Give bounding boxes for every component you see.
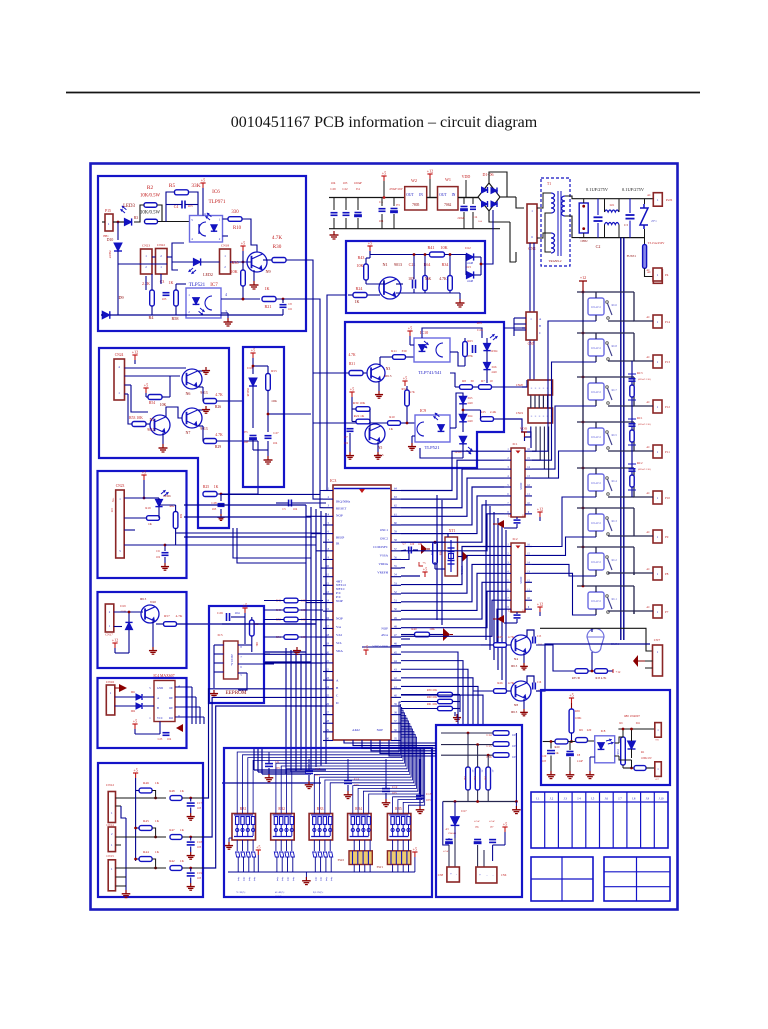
- box C reference section: [243, 347, 284, 487]
- svg-text:10K: 10K: [440, 245, 447, 250]
- transistor N1 9013: [379, 277, 401, 299]
- power +5 above R36: [242, 246, 244, 251]
- wires osc to crystal: [401, 533, 448, 535]
- svg-text:VREFH: VREFH: [377, 571, 388, 575]
- svg-text:R9: R9: [579, 728, 583, 732]
- svg-text:R27: R27: [497, 635, 503, 639]
- svg-text:10K: 10K: [255, 642, 258, 647]
- svg-text:+5: +5: [133, 719, 137, 724]
- ground arrow osc caps: [421, 544, 427, 554]
- power +5 box K: [504, 827, 506, 832]
- svg-text:CN24: CN24: [115, 353, 124, 357]
- capacitor C5 104 small: [288, 500, 290, 507]
- svg-text:RL1: RL1: [612, 597, 618, 601]
- svg-text:4148: 4148: [467, 279, 474, 283]
- connector P12: [653, 400, 662, 413]
- svg-text:CN17: CN17: [105, 633, 113, 637]
- svg-text:1K: 1K: [180, 789, 185, 793]
- opto-coupler IC8 PC817: [595, 736, 615, 763]
- wires of relay RL6: [577, 291, 634, 293]
- svg-text:R1: R1: [641, 750, 645, 754]
- connector CN19 header: [528, 408, 553, 423]
- resistor R34 4.7K vertical: [448, 276, 453, 291]
- contact of relay RL3: [606, 517, 609, 520]
- svg-text:RC2: RC2: [637, 461, 643, 465]
- svg-text:RJLAP-6: RJLAP-6: [591, 522, 602, 525]
- power +5 box C: [252, 353, 254, 358]
- ground arrow AVss: [443, 628, 450, 641]
- svg-text:10K: 10K: [473, 776, 476, 781]
- svg-text:C14: C14: [486, 733, 492, 737]
- wires CN16 to IC4: [115, 696, 136, 698]
- svg-text:W2: W2: [411, 178, 417, 183]
- svg-text:RL7: RL7: [612, 388, 618, 392]
- connector P4: [653, 268, 662, 281]
- resistor R57 4.7K: [164, 622, 177, 627]
- svg-text:IC2: IC2: [512, 537, 517, 541]
- ground left of RB1: [229, 837, 232, 839]
- ground right of N7: [198, 409, 205, 411]
- svg-text:4.7K: 4.7K: [409, 391, 415, 394]
- svg-text:C14: C14: [473, 216, 478, 219]
- svg-text:R35 30: R35 30: [572, 677, 581, 680]
- svg-text:VDDA: VDDA: [378, 562, 388, 566]
- box G interface section: [98, 678, 187, 748]
- svg-text:10K: 10K: [463, 776, 466, 781]
- bus MCU right lower to box K: [401, 652, 458, 725]
- feeders bundle to MCU pins: [306, 515, 323, 517]
- svg-text:LED4: LED4: [491, 350, 498, 353]
- svg-text:=: =: [531, 386, 533, 390]
- svg-text:P9: P9: [665, 535, 669, 539]
- wires R5/C4 feedback loop: [166, 192, 175, 222]
- wire R36 bottom to IC7: [242, 286, 244, 299]
- resistor R66 104 vertical: [433, 542, 438, 564]
- resistor R54 10K: [148, 395, 162, 400]
- svg-text:-: -: [493, 873, 494, 877]
- power +12 box F: [114, 643, 116, 648]
- transistor N7: [182, 408, 202, 428]
- svg-text:C24: C24: [477, 328, 483, 332]
- svg-text:103: 103: [197, 877, 202, 880]
- power +12 IC1: [539, 512, 541, 517]
- svg-text:T3.15A/250V: T3.15A/250V: [648, 241, 666, 245]
- svg-text:IC3: IC3: [330, 478, 336, 483]
- resistor R64 56K vertical: [423, 276, 428, 291]
- svg-text:104: 104: [331, 181, 336, 185]
- svg-text:N6: N6: [186, 391, 191, 396]
- svg-text:1K: 1K: [169, 280, 174, 285]
- svg-text:CN12: CN12: [106, 783, 114, 787]
- capacitor C11 103: [347, 774, 349, 780]
- svg-text:AKI2: AKI2: [352, 728, 360, 732]
- svg-text:103: 103: [426, 798, 431, 802]
- svg-text:10K: 10K: [271, 399, 277, 403]
- long routing verticals right of MCU: [436, 495, 438, 620]
- svg-text:CN18: CN18: [221, 244, 229, 248]
- transistor N5 9013: [365, 424, 385, 444]
- svg-text:1K: 1K: [180, 859, 185, 863]
- svg-text:24C01A-: 24C01A-: [230, 654, 234, 666]
- svg-text:OUT: OUT: [406, 193, 414, 197]
- capacitor C3 103: [163, 292, 170, 294]
- relay coil feed wires from IC1 IC2: [532, 321, 596, 451]
- svg-text:163: 163: [212, 507, 217, 511]
- svg-text:R53 10K: R53 10K: [129, 416, 143, 420]
- svg-text:N8: N8: [514, 703, 518, 707]
- svg-text:+5: +5: [408, 326, 412, 331]
- svg-text:104: 104: [234, 611, 239, 615]
- svg-text:1K: 1K: [180, 828, 185, 832]
- wires MCU bottom to box K: [344, 740, 436, 743]
- svg-text:VCC: VCC: [157, 716, 163, 720]
- svg-text:(033uF+120): (033uF+120): [638, 468, 651, 471]
- wires to CN4: [516, 197, 524, 208]
- bottom rail filter: [579, 237, 645, 239]
- transistor N6: [182, 369, 202, 389]
- svg-text:AVss: AVss: [381, 633, 389, 637]
- resistor R66 680 vertical: [621, 737, 626, 765]
- svg-text:-: -: [456, 872, 457, 876]
- power +5 above IC6: [202, 183, 204, 188]
- transistor N2 9013: [150, 415, 170, 435]
- resistor R53 10K: [132, 422, 146, 427]
- power +5 box G: [134, 724, 136, 729]
- relay RL5 RJLAP-6: [588, 428, 604, 445]
- wires box E exit: [165, 544, 186, 546]
- ground in box R: [459, 293, 461, 299]
- svg-text:+12: +12: [537, 602, 544, 607]
- LED4: [483, 343, 490, 350]
- diode D17 1N4148: [451, 817, 460, 826]
- wires box R internal: [396, 283, 403, 285]
- svg-text:R29: R29: [215, 445, 221, 449]
- svg-text:J.7: J.7: [618, 797, 622, 801]
- wire box C mid to right: [268, 413, 284, 415]
- svg-text:P7: P7: [665, 610, 669, 614]
- svg-text:10: 10: [489, 379, 493, 383]
- connector CN5: [526, 312, 537, 340]
- capacitor C19 103: [187, 872, 195, 874]
- resistor R43 10K vertical: [364, 264, 369, 280]
- resistor R40 10K at AVss: [401, 638, 410, 640]
- wires R8 R7 chain: [455, 386, 460, 388]
- svg-text:D14: D14: [468, 415, 473, 418]
- red arrow right of crystal: [462, 551, 468, 562]
- svg-text:CN19: CN19: [516, 411, 524, 415]
- power +5 above IC10: [409, 331, 411, 336]
- svg-text:C31: C31: [508, 515, 513, 518]
- svg-text:J.6: J.6: [605, 797, 609, 801]
- svg-text:R66: R66: [439, 551, 442, 556]
- svg-text:W1: W1: [445, 177, 451, 182]
- resistor R55 10K vertical: [266, 374, 271, 391]
- vertical to fuse: [644, 199, 646, 204]
- svg-text:+5: +5: [243, 603, 247, 608]
- svg-text:+5: +5: [413, 847, 417, 852]
- capacitor C10 103: [308, 764, 310, 770]
- wires from box A outputs down to MCU: [306, 260, 323, 499]
- vertical CN pins link: [116, 805, 122, 807]
- svg-text:RJLAP-6: RJLAP-6: [591, 391, 602, 394]
- svg-text:IC8: IC8: [601, 729, 606, 733]
- svg-text:R54: R54: [149, 401, 155, 405]
- svg-text:2003: 2003: [519, 483, 523, 490]
- connector CN20 header: [528, 380, 553, 395]
- svg-text:103: 103: [315, 773, 320, 777]
- ground resistor group: [454, 712, 456, 716]
- contact of relay RL8: [606, 342, 609, 345]
- wires IC4 right rows: [175, 686, 192, 688]
- svg-text:IC6: IC6: [212, 189, 220, 195]
- svg-text:42+4N(7)+: 42+4N(7)+: [275, 891, 286, 894]
- svg-text:+5: +5: [403, 376, 407, 381]
- svg-text:100K: 100K: [575, 716, 582, 720]
- svg-text:56K: 56K: [425, 277, 432, 281]
- capacitor E5 1uF polarized: [250, 435, 257, 437]
- X-capacitor CBB2: [579, 203, 588, 233]
- ground right of N6: [198, 370, 205, 372]
- svg-text:+5: +5: [133, 768, 137, 773]
- ground between EEPROM and MCU: [296, 647, 298, 651]
- svg-text:CN23: CN23: [142, 244, 150, 248]
- resistor R52 4.7K vertical: [405, 390, 410, 406]
- resistor R29 4.7K: [204, 439, 217, 444]
- relay RL2 RJLAP-6: [588, 553, 604, 570]
- svg-text:104: 104: [379, 219, 384, 223]
- diode D10 1N4007: [117, 222, 119, 240]
- svg-text:IC10: IC10: [420, 330, 428, 335]
- svg-text:C13: C13: [426, 792, 432, 796]
- contact of relay RL2: [606, 556, 609, 559]
- capacitor E8 2.2uF: [567, 751, 574, 753]
- LED LED2: [193, 258, 200, 265]
- verticals from CN4 CN5 down to CN20: [529, 243, 531, 312]
- svg-text:R26: R26: [497, 681, 503, 685]
- ground below N5: [377, 442, 379, 452]
- svg-text:4148: 4148: [467, 420, 473, 423]
- svg-text:CN16: CN16: [106, 680, 114, 684]
- ground below N3: [378, 381, 380, 391]
- svg-text:330: 330: [401, 349, 406, 353]
- ground below N9: [253, 270, 255, 281]
- svg-text:4(m): 4(m): [253, 877, 256, 882]
- svg-text:C3: C3: [624, 223, 628, 227]
- svg-text:RB4: RB4: [355, 807, 362, 811]
- svg-text:+5: +5: [364, 645, 368, 650]
- IC2 pins: [504, 546, 511, 548]
- svg-text:(033uF+120): (033uF+120): [638, 378, 651, 381]
- diode D14 4148: [459, 414, 467, 422]
- svg-text:102: 102: [156, 556, 161, 559]
- wires caps to connectors: [454, 838, 456, 867]
- power +5 R54: [145, 388, 147, 393]
- svg-text:R19: R19: [145, 506, 151, 510]
- svg-text:OSC1: OSC1: [380, 528, 388, 532]
- svg-text:VDD: VDD: [520, 427, 528, 431]
- svg-text:RB5: RB5: [395, 807, 402, 811]
- ground top rail: [333, 231, 335, 235]
- MCU left pins: [323, 490, 333, 492]
- svg-text:R33 4.7K: R33 4.7K: [596, 677, 607, 680]
- svg-text:R57: R57: [164, 614, 170, 618]
- capacitor C16 163: [493, 753, 509, 758]
- row wire box L: [543, 741, 555, 743]
- svg-text:Vss: Vss: [336, 625, 342, 629]
- svg-text:R36: R36: [232, 260, 239, 265]
- svg-text:NOP: NOP: [381, 627, 388, 631]
- svg-text:1K: 1K: [155, 850, 160, 854]
- svg-text:R25: R25: [203, 485, 209, 489]
- svg-text:220: 220: [587, 728, 592, 732]
- capacitor C15 163: [493, 742, 509, 747]
- connector CN16: [106, 685, 115, 715]
- svg-text:R59 10K: R59 10K: [427, 689, 437, 692]
- relay RL3 RJLAP-6: [588, 514, 604, 531]
- wires of relay RL5: [577, 421, 634, 423]
- wires T1 right to filter: [565, 196, 579, 199]
- connector CN24: [114, 359, 125, 400]
- svg-text:4.7K: 4.7K: [508, 635, 515, 639]
- power +12 CN24: [134, 355, 136, 360]
- power +5 VDDAREF: [362, 646, 401, 648]
- svg-text:R5: R5: [169, 183, 176, 189]
- connector PL1 top: [655, 723, 662, 738]
- bottom table right: [604, 857, 670, 901]
- resistor R20 1K: [555, 739, 568, 744]
- cap feed stubs: [268, 752, 270, 759]
- LED6 indicator: [155, 499, 162, 506]
- svg-text:D9: D9: [118, 295, 123, 300]
- capacitor C14b: [472, 198, 474, 205]
- svg-text:1N4007: 1N4007: [108, 250, 111, 259]
- opto-coupler IC10 TLP741/541: [414, 338, 450, 362]
- svg-text:4C: 4C: [491, 770, 493, 773]
- svg-text:J.1: J.1: [536, 797, 540, 801]
- wires N4 N8 collectors: [527, 630, 534, 637]
- top rail filter: [579, 198, 653, 200]
- svg-text:TRAN9-2: TRAN9-2: [549, 259, 562, 263]
- svg-text:RJLAP-6: RJLAP-6: [591, 347, 602, 350]
- switch SW1 DIP: [387, 851, 410, 865]
- connector CN4: [527, 204, 537, 243]
- svg-text:R22 1K: R22 1K: [354, 414, 365, 418]
- key diodes under RB1-RB3: [236, 840, 238, 851]
- capacitor E2 220uF: [463, 198, 465, 205]
- svg-text:4(m): 4(m): [281, 877, 284, 882]
- svg-text:9013: 9013: [385, 374, 392, 378]
- svg-text:SDA: SDA: [336, 649, 343, 653]
- power +5 left IC9: [351, 392, 353, 397]
- power +12 tap: [429, 174, 431, 179]
- wires CN7 left: [536, 644, 650, 691]
- svg-text:+5: +5: [569, 693, 573, 698]
- connector P1 bottom: [653, 270, 662, 284]
- row3 wire: [116, 867, 167, 869]
- wires T1 left: [548, 192, 551, 194]
- row1 wire: [116, 797, 167, 799]
- svg-text:J.10: J.10: [659, 797, 664, 801]
- svg-text:C2: C2: [596, 244, 601, 249]
- svg-text:+5: +5: [423, 567, 427, 572]
- power +5 box I: [135, 773, 137, 778]
- svg-text:+5: +5: [241, 241, 245, 246]
- power +5 EEPROM: [244, 608, 246, 613]
- svg-text:4.7K: 4.7K: [215, 393, 223, 397]
- svg-text:RC3: RC3: [637, 371, 643, 375]
- svg-text:P11: P11: [665, 450, 670, 454]
- wires of relay RL3: [577, 507, 634, 509]
- svg-text:=: =: [531, 414, 533, 418]
- wire bundle left of MCU: [305, 505, 307, 770]
- relay RL4 RJLAP-6: [588, 474, 604, 491]
- wire LED2 to CN18: [172, 261, 193, 263]
- svg-text:N10: N10: [150, 600, 156, 604]
- capacitor C4 103: [181, 201, 183, 209]
- svg-text:P14: P14: [665, 320, 670, 324]
- connector CN23: [141, 249, 153, 274]
- svg-text:B: B: [539, 324, 541, 328]
- connector P11: [653, 445, 662, 458]
- svg-text:R44: R44: [143, 850, 149, 854]
- svg-text:RJLAP-6: RJLAP-6: [591, 561, 602, 564]
- svg-text:4(m): 4(m): [237, 877, 240, 882]
- long vertical AC feeds: [620, 238, 622, 640]
- power +5 box L: [571, 698, 573, 703]
- svg-text:CN23: CN23: [116, 484, 125, 488]
- contact of relay RL5: [606, 431, 609, 434]
- wires D12 D13: [465, 255, 467, 276]
- box F aux driver: [98, 592, 187, 668]
- svg-text:SCL: SCL: [336, 641, 342, 645]
- resistor R52 vertical: [250, 620, 255, 636]
- svg-text:1K: 1K: [389, 427, 394, 431]
- svg-text:9013: 9013: [200, 391, 207, 395]
- svg-text:4(m): 4(m): [292, 877, 295, 882]
- svg-text:R10: R10: [233, 226, 242, 231]
- capacitor C20 103: [547, 750, 555, 752]
- svg-text:D16: D16: [492, 366, 497, 369]
- svg-text:D1-D6: D1-D6: [482, 172, 493, 177]
- ground IC8: [590, 756, 595, 758]
- svg-text:CBB2: CBB2: [581, 240, 589, 243]
- connector P9: [653, 530, 662, 543]
- svg-text:103: 103: [197, 807, 202, 810]
- svg-text:C28: C28: [211, 501, 217, 505]
- row2 wire: [116, 836, 167, 838]
- right edge link box K: [515, 733, 517, 802]
- svg-text:C15: C15: [537, 635, 542, 638]
- svg-text:P10: P10: [665, 496, 670, 500]
- svg-text:LED3: LED3: [123, 204, 135, 209]
- svg-text:4148: 4148: [491, 371, 497, 374]
- svg-text:BEEP: BEEP: [336, 535, 344, 539]
- contact of relay RL1: [606, 595, 609, 598]
- wire box C exit right: [284, 413, 311, 415]
- svg-text:330: 330: [231, 210, 239, 215]
- svg-text:NOP: NOP: [377, 728, 384, 732]
- svg-text:R47: R47: [169, 828, 175, 832]
- svg-text:C25: C25: [158, 738, 163, 741]
- svg-text:R48: R48: [169, 789, 175, 793]
- svg-text:(033uF+120): (033uF+120): [638, 423, 651, 426]
- svg-text:B: B: [157, 706, 159, 710]
- svg-text:C29: C29: [330, 187, 336, 191]
- svg-text:LED6: LED6: [163, 494, 171, 498]
- svg-text:103: 103: [197, 846, 202, 849]
- power +5 down link: [135, 791, 137, 862]
- bottom table left: [531, 857, 593, 901]
